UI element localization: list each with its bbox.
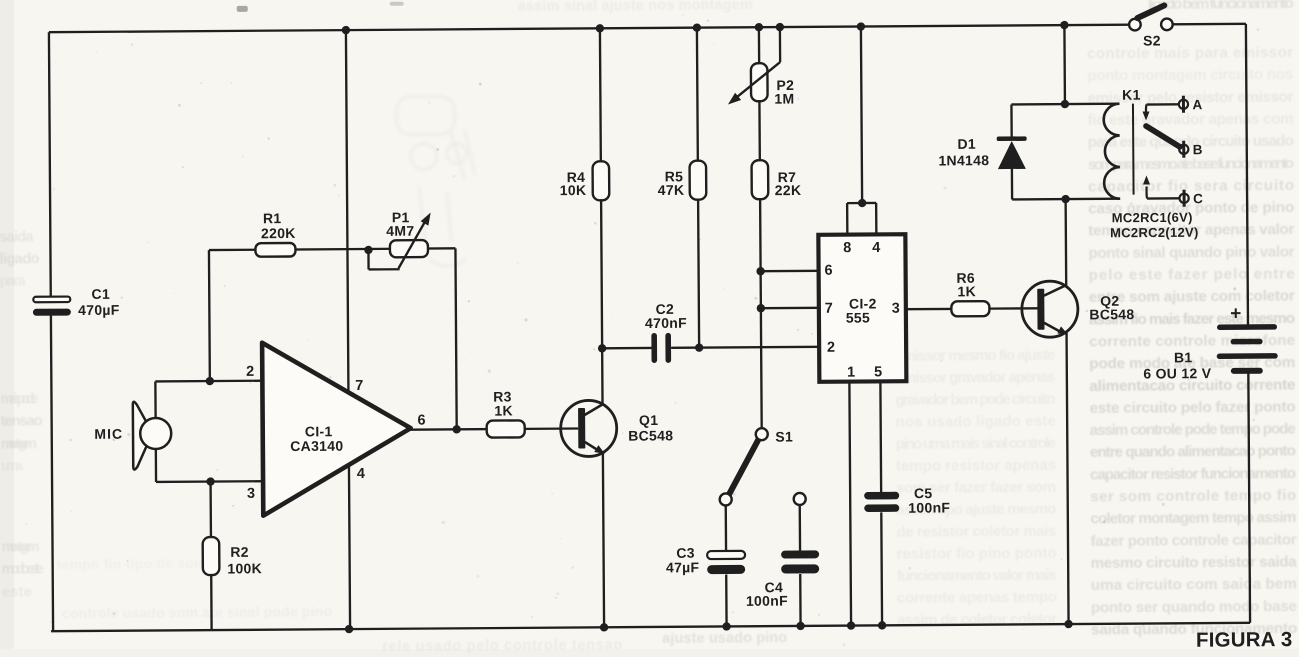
svg-text:6 OU 12 V: 6 OU 12 V <box>1143 365 1212 381</box>
svg-text:47K: 47K <box>658 182 685 198</box>
svg-text:ponto montagem circuito nos: ponto montagem circuito nos <box>1087 66 1293 84</box>
svg-text:2: 2 <box>827 340 835 356</box>
svg-text:6: 6 <box>824 263 832 279</box>
svg-text:assim controle pode tempo pode: assim controle pode tempo pode <box>1090 421 1296 439</box>
svg-text:S1: S1 <box>775 429 793 445</box>
svg-text:funcionamento valor mais: funcionamento valor mais <box>897 567 1057 585</box>
svg-text:rele usado pelo controle tensa: rele usado pelo controle tensao <box>382 637 622 655</box>
svg-text:4M7: 4M7 <box>386 223 414 239</box>
svg-text:corrente controle microfone: corrente controle microfone <box>1089 332 1295 350</box>
svg-text:FIGURA 3: FIGURA 3 <box>1196 628 1293 652</box>
svg-text:este: este <box>2 584 32 600</box>
svg-text:uma circuito com saida bem: uma circuito com saida bem <box>1091 576 1297 594</box>
svg-text:2: 2 <box>246 364 254 380</box>
svg-text:470µF: 470µF <box>78 302 120 318</box>
svg-text:MC2RC2(12V): MC2RC2(12V) <box>1110 225 1199 241</box>
svg-text:1K: 1K <box>494 402 513 418</box>
svg-text:mesmo circuito resistor saida: mesmo circuito resistor saida <box>1091 553 1298 571</box>
svg-text:MIC: MIC <box>94 426 123 442</box>
svg-text:emissor mesmo fio ajuste: emissor mesmo fio ajuste <box>895 347 1055 365</box>
svg-text:mais pode: mais pode <box>0 391 38 407</box>
svg-text:entre quando alimentacao ponto: entre quando alimentacao ponto <box>1090 443 1296 461</box>
svg-text:montagem: montagem <box>1 436 37 452</box>
svg-text:uma: uma <box>1 458 24 474</box>
svg-text:corrente apenas tempo: corrente apenas tempo <box>897 589 1057 607</box>
svg-text:saida: saida <box>0 229 34 245</box>
svg-text:47µF: 47µF <box>666 559 700 575</box>
svg-text:R1: R1 <box>263 210 282 226</box>
svg-text:ponto ser quando modo base: ponto ser quando modo base <box>1091 598 1297 616</box>
svg-text:ponto sinal quando pino valor: ponto sinal quando pino valor <box>1088 243 1294 261</box>
svg-text:3: 3 <box>892 301 900 317</box>
svg-text:som para mesmo ate base funcio: som para mesmo ate base funcionamento <box>1088 155 1294 173</box>
svg-text:pino uma mais sinal controle: pino uma mais sinal controle <box>896 435 1056 453</box>
svg-text:tempo fio tipo de som: tempo fio tipo de som <box>57 555 207 572</box>
svg-text:A: A <box>1192 97 1202 112</box>
svg-text:resistor fio pino ponto: resistor fio pino ponto <box>897 545 1057 563</box>
svg-text:controle mais para emissor: controle mais para emissor <box>1087 44 1293 62</box>
svg-text:B1: B1 <box>1174 349 1193 365</box>
svg-text:220K: 220K <box>261 225 296 241</box>
svg-text:1M: 1M <box>774 90 794 106</box>
svg-text:8: 8 <box>843 240 851 256</box>
svg-text:+: + <box>1230 303 1242 324</box>
svg-text:fio este gravador apenas com: fio este gravador apenas com <box>1088 110 1294 128</box>
svg-text:22K: 22K <box>775 182 802 198</box>
svg-text:montagem: montagem <box>1 539 39 555</box>
svg-text:pelo este fazer pelo entre: pelo este fazer pelo entre <box>1089 265 1295 283</box>
svg-text:6: 6 <box>417 413 425 429</box>
svg-text:controle usado som ate sinal p: controle usado som ate sinal pode pino <box>62 603 332 621</box>
svg-text:470nF: 470nF <box>645 315 687 331</box>
svg-text:1K: 1K <box>957 283 976 299</box>
svg-text:100K: 100K <box>227 560 262 576</box>
svg-text:tempo resistor apenas: tempo resistor apenas <box>896 457 1056 475</box>
svg-text:gravador bem pode circuito: gravador bem pode circuito <box>895 391 1055 409</box>
svg-text:ligado bem funcionamento: ligado bem funcionamento <box>1148 0 1294 13</box>
svg-text:coletor montagem tempo assim: coletor montagem tempo assim <box>1090 509 1296 527</box>
svg-text:C: C <box>1193 191 1203 206</box>
svg-text:assim sinal ajuste nos montage: assim sinal ajuste nos montagem <box>518 0 753 15</box>
svg-text:BC548: BC548 <box>628 427 673 443</box>
svg-text:3: 3 <box>247 486 255 502</box>
svg-text:CA3140: CA3140 <box>290 438 343 454</box>
svg-text:10K: 10K <box>560 182 587 198</box>
svg-text:100nF: 100nF <box>908 499 950 515</box>
svg-text:1N4148: 1N4148 <box>938 152 989 168</box>
svg-text:tensao: tensao <box>1 413 43 429</box>
svg-text:capacitor resistor funcionamen: capacitor resistor funcionamento <box>1090 465 1296 483</box>
svg-text:MC2RC1(6V): MC2RC1(6V) <box>1112 210 1193 226</box>
svg-text:5: 5 <box>874 364 882 380</box>
svg-text:K1: K1 <box>1122 87 1141 103</box>
svg-text:ser som controle tempo fio: ser som controle tempo fio <box>1090 487 1296 505</box>
svg-text:fazer ponto controle capacitor: fazer ponto controle capacitor <box>1090 531 1296 549</box>
svg-text:4: 4 <box>872 240 880 256</box>
svg-text:7: 7 <box>355 378 363 394</box>
svg-text:S2: S2 <box>1143 32 1161 48</box>
svg-text:ligado: ligado <box>0 251 40 267</box>
svg-text:D1: D1 <box>957 136 976 152</box>
svg-text:capacitor fio sera circuito: capacitor fio sera circuito <box>1088 177 1294 195</box>
svg-text:para: para <box>0 273 27 289</box>
svg-text:nos usado ligado este: nos usado ligado este <box>896 413 1056 431</box>
svg-text:B: B <box>1193 142 1203 157</box>
svg-text:ajuste usado pino: ajuste usado pino <box>662 630 787 647</box>
svg-text:Q1: Q1 <box>639 412 658 428</box>
svg-text:100nF: 100nF <box>746 593 788 609</box>
svg-text:1: 1 <box>847 365 855 381</box>
svg-text:7: 7 <box>825 301 833 317</box>
svg-text:R2: R2 <box>230 544 249 560</box>
svg-text:4: 4 <box>357 466 365 482</box>
svg-text:emissor gravador apenas: emissor gravador apenas <box>895 369 1055 387</box>
svg-text:entre som ajuste com coletor: entre som ajuste com coletor <box>1089 288 1295 306</box>
svg-text:C1: C1 <box>91 286 110 302</box>
svg-text:de resistor coletor mais: de resistor coletor mais <box>896 523 1056 541</box>
svg-text:modo este: modo este <box>2 561 44 577</box>
svg-text:BC548: BC548 <box>1089 306 1134 322</box>
svg-text:555: 555 <box>846 309 870 325</box>
svg-text:este circuito pelo fazer ponto: este circuito pelo fazer ponto <box>1090 398 1296 416</box>
